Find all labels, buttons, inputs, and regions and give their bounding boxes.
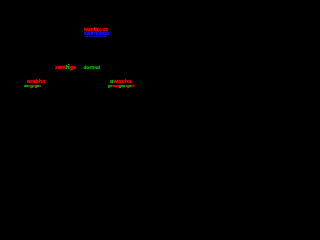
- red word bottom-left row1: [27, 80, 45, 86]
- mixed green/red small row bottom-right row2: [108, 85, 134, 89]
- red title line top-right: [84, 28, 108, 33]
- green/red small row bottom-left row2: [24, 85, 41, 89]
- blue row lower fringe: [85, 36, 106, 37]
- blue link line top-right: [84, 31, 109, 37]
- green marker + red word bottom-right row1: [110, 80, 131, 86]
- green apostrophe dot middle: [68, 64, 69, 66]
- red word with green char middle-left: [55, 66, 75, 72]
- red descender dot bottom-left: [30, 87, 31, 89]
- green word middle-right: [84, 67, 101, 72]
- green underline fragment middle: [70, 70, 73, 72]
